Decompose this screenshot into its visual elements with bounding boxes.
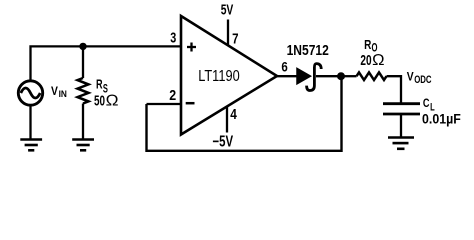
- svg-text:5V: 5V: [221, 1, 234, 18]
- label RS 50Ω: [94, 77, 119, 110]
- wire RO to output corner: [387, 76, 402, 103]
- wire cap to ground: [400, 114, 402, 137]
- svg-text:4: 4: [230, 107, 237, 123]
- label CL 0.01µF: [422, 96, 461, 127]
- svg-text:2: 2: [169, 88, 176, 104]
- svg-text:R: R: [96, 77, 103, 92]
- svg-text:3: 3: [170, 31, 176, 47]
- svg-text:LT1190: LT1190: [198, 68, 240, 85]
- wire pin 2 input: [147, 103, 182, 105]
- svg-text:6: 6: [281, 58, 288, 74]
- label - inverting input: [186, 102, 195, 105]
- AC source V1 VIN: [18, 81, 42, 105]
- wire diode to junction: [316, 75, 342, 77]
- junction output node: [337, 72, 345, 80]
- capacitor CL top plate: [383, 102, 420, 105]
- wire VIN bottom to ground: [29, 106, 31, 140]
- label VODC: [407, 70, 432, 86]
- svg-text:IN: IN: [59, 89, 67, 100]
- svg-text:V: V: [51, 84, 58, 98]
- svg-text:20: 20: [360, 52, 371, 69]
- resistor RS zigzag: [78, 78, 89, 104]
- wire op-amp output to diode: [277, 75, 297, 77]
- svg-text:7: 7: [232, 32, 238, 48]
- label RO 20Ω: [360, 37, 384, 69]
- wire junction to RS: [82, 46, 84, 78]
- svg-text:V: V: [407, 70, 414, 83]
- ground G2 under RS: [72, 140, 94, 151]
- wire junction to RO: [341, 75, 357, 77]
- label + noninverting input: [187, 43, 196, 52]
- svg-text:0.01µF: 0.01µF: [422, 112, 461, 127]
- resistor RO zigzag: [357, 72, 387, 80]
- diode D1 1N5712 anode triangle: [297, 68, 311, 83]
- svg-text:50: 50: [94, 93, 105, 110]
- op-amp U1 LT1190 triangle: [181, 16, 277, 135]
- capacitor CL bottom plate: [383, 113, 420, 116]
- svg-text:ODC: ODC: [414, 74, 431, 86]
- diode D1 schottky cathode bar: [307, 64, 322, 91]
- svg-text:R: R: [364, 37, 371, 52]
- wire top from VIN to pin 3: [31, 46, 182, 80]
- ground G1 under VIN: [20, 140, 42, 151]
- junction input node: [79, 43, 86, 50]
- svg-text:Ω: Ω: [106, 93, 119, 110]
- svg-text:Ω: Ω: [372, 52, 384, 69]
- ground G3 under CL: [388, 138, 414, 149]
- wire RS to ground: [82, 104, 84, 140]
- svg-text:C: C: [423, 96, 430, 110]
- svg-text:1N5712: 1N5712: [287, 43, 329, 59]
- label VIN: [51, 84, 67, 100]
- wire feedback loop: [147, 76, 342, 151]
- supply -5V pin 4 wire: [226, 107, 228, 133]
- svg-text:−5V: −5V: [213, 134, 234, 151]
- supply 5V pin 7 wire: [227, 20, 229, 46]
